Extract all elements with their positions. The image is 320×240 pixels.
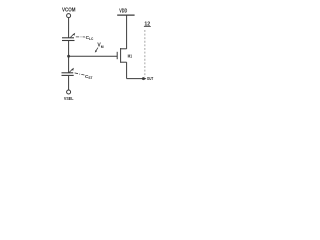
wire node to gate bbox=[69, 55, 118, 57]
power VDD rail bbox=[117, 14, 134, 16]
wire CLC to CST bbox=[68, 41, 70, 73]
label C_ST bbox=[85, 74, 93, 80]
svg-text:VDD: VDD bbox=[119, 9, 127, 15]
capacitor CST bbox=[62, 68, 74, 76]
transistor M1 bbox=[117, 48, 126, 63]
label V_M bbox=[95, 43, 104, 53]
label 12 bbox=[144, 21, 151, 27]
wire drain to VDD bbox=[126, 15, 128, 49]
svg-text:ST: ST bbox=[88, 76, 92, 80]
leader to label CLC bbox=[76, 36, 85, 38]
node A (gate node junction) bbox=[67, 55, 70, 58]
wire CST to VSEL bbox=[68, 76, 70, 90]
label C_LC bbox=[86, 35, 94, 41]
wire VCOM to CLC bbox=[68, 18, 70, 38]
svg-text:VSEL: VSEL bbox=[64, 96, 74, 102]
svg-text:LC: LC bbox=[89, 37, 94, 41]
svg-text:VCOM: VCOM bbox=[62, 7, 76, 13]
svg-text:M1: M1 bbox=[128, 53, 133, 58]
wire source down bbox=[126, 62, 128, 78]
terminal VCOM bbox=[67, 14, 71, 18]
terminal VSEL bbox=[67, 90, 71, 94]
wire source to OUT bbox=[127, 78, 144, 80]
svg-text:OUT: OUT bbox=[147, 76, 154, 81]
node OUT with arrow bbox=[142, 77, 147, 80]
svg-text:M: M bbox=[101, 45, 104, 49]
leader to label CST bbox=[75, 73, 85, 75]
capacitor CLC bbox=[62, 33, 75, 41]
dashed output column line bbox=[144, 30, 146, 77]
